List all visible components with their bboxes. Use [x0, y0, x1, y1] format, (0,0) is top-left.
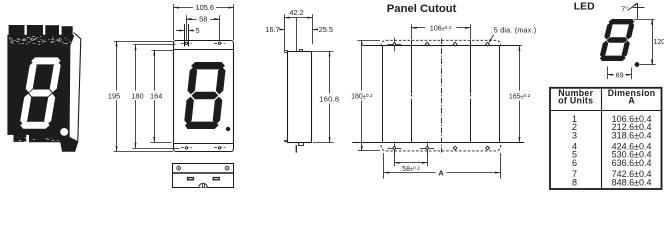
svg-text:8: 8: [572, 177, 577, 187]
svg-text:180: 180: [131, 91, 143, 100]
svg-text:Panel Cutout: Panel Cutout: [387, 3, 457, 15]
svg-text:3: 3: [572, 130, 577, 140]
svg-text:120: 120: [654, 39, 664, 46]
svg-text:42.2: 42.2: [289, 8, 303, 17]
svg-text:LED: LED: [574, 2, 595, 13]
svg-text:of Units: of Units: [558, 95, 593, 105]
svg-text:A: A: [628, 95, 635, 105]
svg-text:5: 5: [196, 26, 200, 35]
svg-text:195: 195: [108, 91, 120, 100]
svg-text:69: 69: [616, 73, 624, 80]
svg-text:6: 6: [572, 158, 577, 168]
svg-text:164: 164: [150, 91, 162, 100]
svg-text:5 dia. (max.): 5 dia. (max.): [494, 25, 537, 34]
svg-text:16.7: 16.7: [265, 25, 279, 34]
svg-text:105.6: 105.6: [196, 3, 215, 12]
svg-text:58: 58: [199, 15, 207, 24]
svg-text:160.8: 160.8: [319, 94, 339, 103]
svg-text:25.5: 25.5: [319, 25, 333, 34]
svg-text:7°: 7°: [621, 6, 628, 14]
svg-text:848.6±0.4: 848.6±0.4: [612, 177, 652, 187]
svg-text:A: A: [438, 168, 444, 177]
svg-text:636.6±0.4: 636.6±0.4: [612, 158, 652, 168]
svg-text:318.6±0.4: 318.6±0.4: [612, 130, 652, 140]
